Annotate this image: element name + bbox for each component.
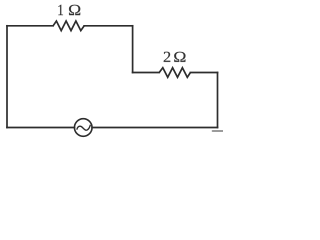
AC source sine wave bbox=[77, 125, 90, 130]
value label "1 ohm" for R1 bbox=[58, 5, 80, 15]
wire: middle segment from R2 to right corner bbox=[190, 72, 217, 74]
resistor R2 (2 ohm) zigzag bbox=[159, 68, 190, 78]
wire: middle segment to R2 bbox=[133, 72, 160, 74]
value label "2 ohm" for R2 bbox=[164, 52, 186, 62]
wire: bottom-left segment from source bbox=[7, 127, 74, 129]
AC source V1 circle bbox=[74, 119, 92, 137]
stray gray mark at bottom-right edge bbox=[213, 130, 224, 132]
wire: bottom-right segment to source bbox=[92, 127, 217, 129]
wire: right vertical side bbox=[217, 73, 219, 128]
wire: left vertical side bbox=[6, 26, 8, 128]
resistor R1 (1 ohm) zigzag bbox=[53, 21, 84, 31]
wire: top segment from R1 to step corner bbox=[84, 25, 132, 27]
wire: top-left segment to R1 bbox=[7, 25, 53, 27]
wire: step vertical drop bbox=[132, 26, 134, 73]
